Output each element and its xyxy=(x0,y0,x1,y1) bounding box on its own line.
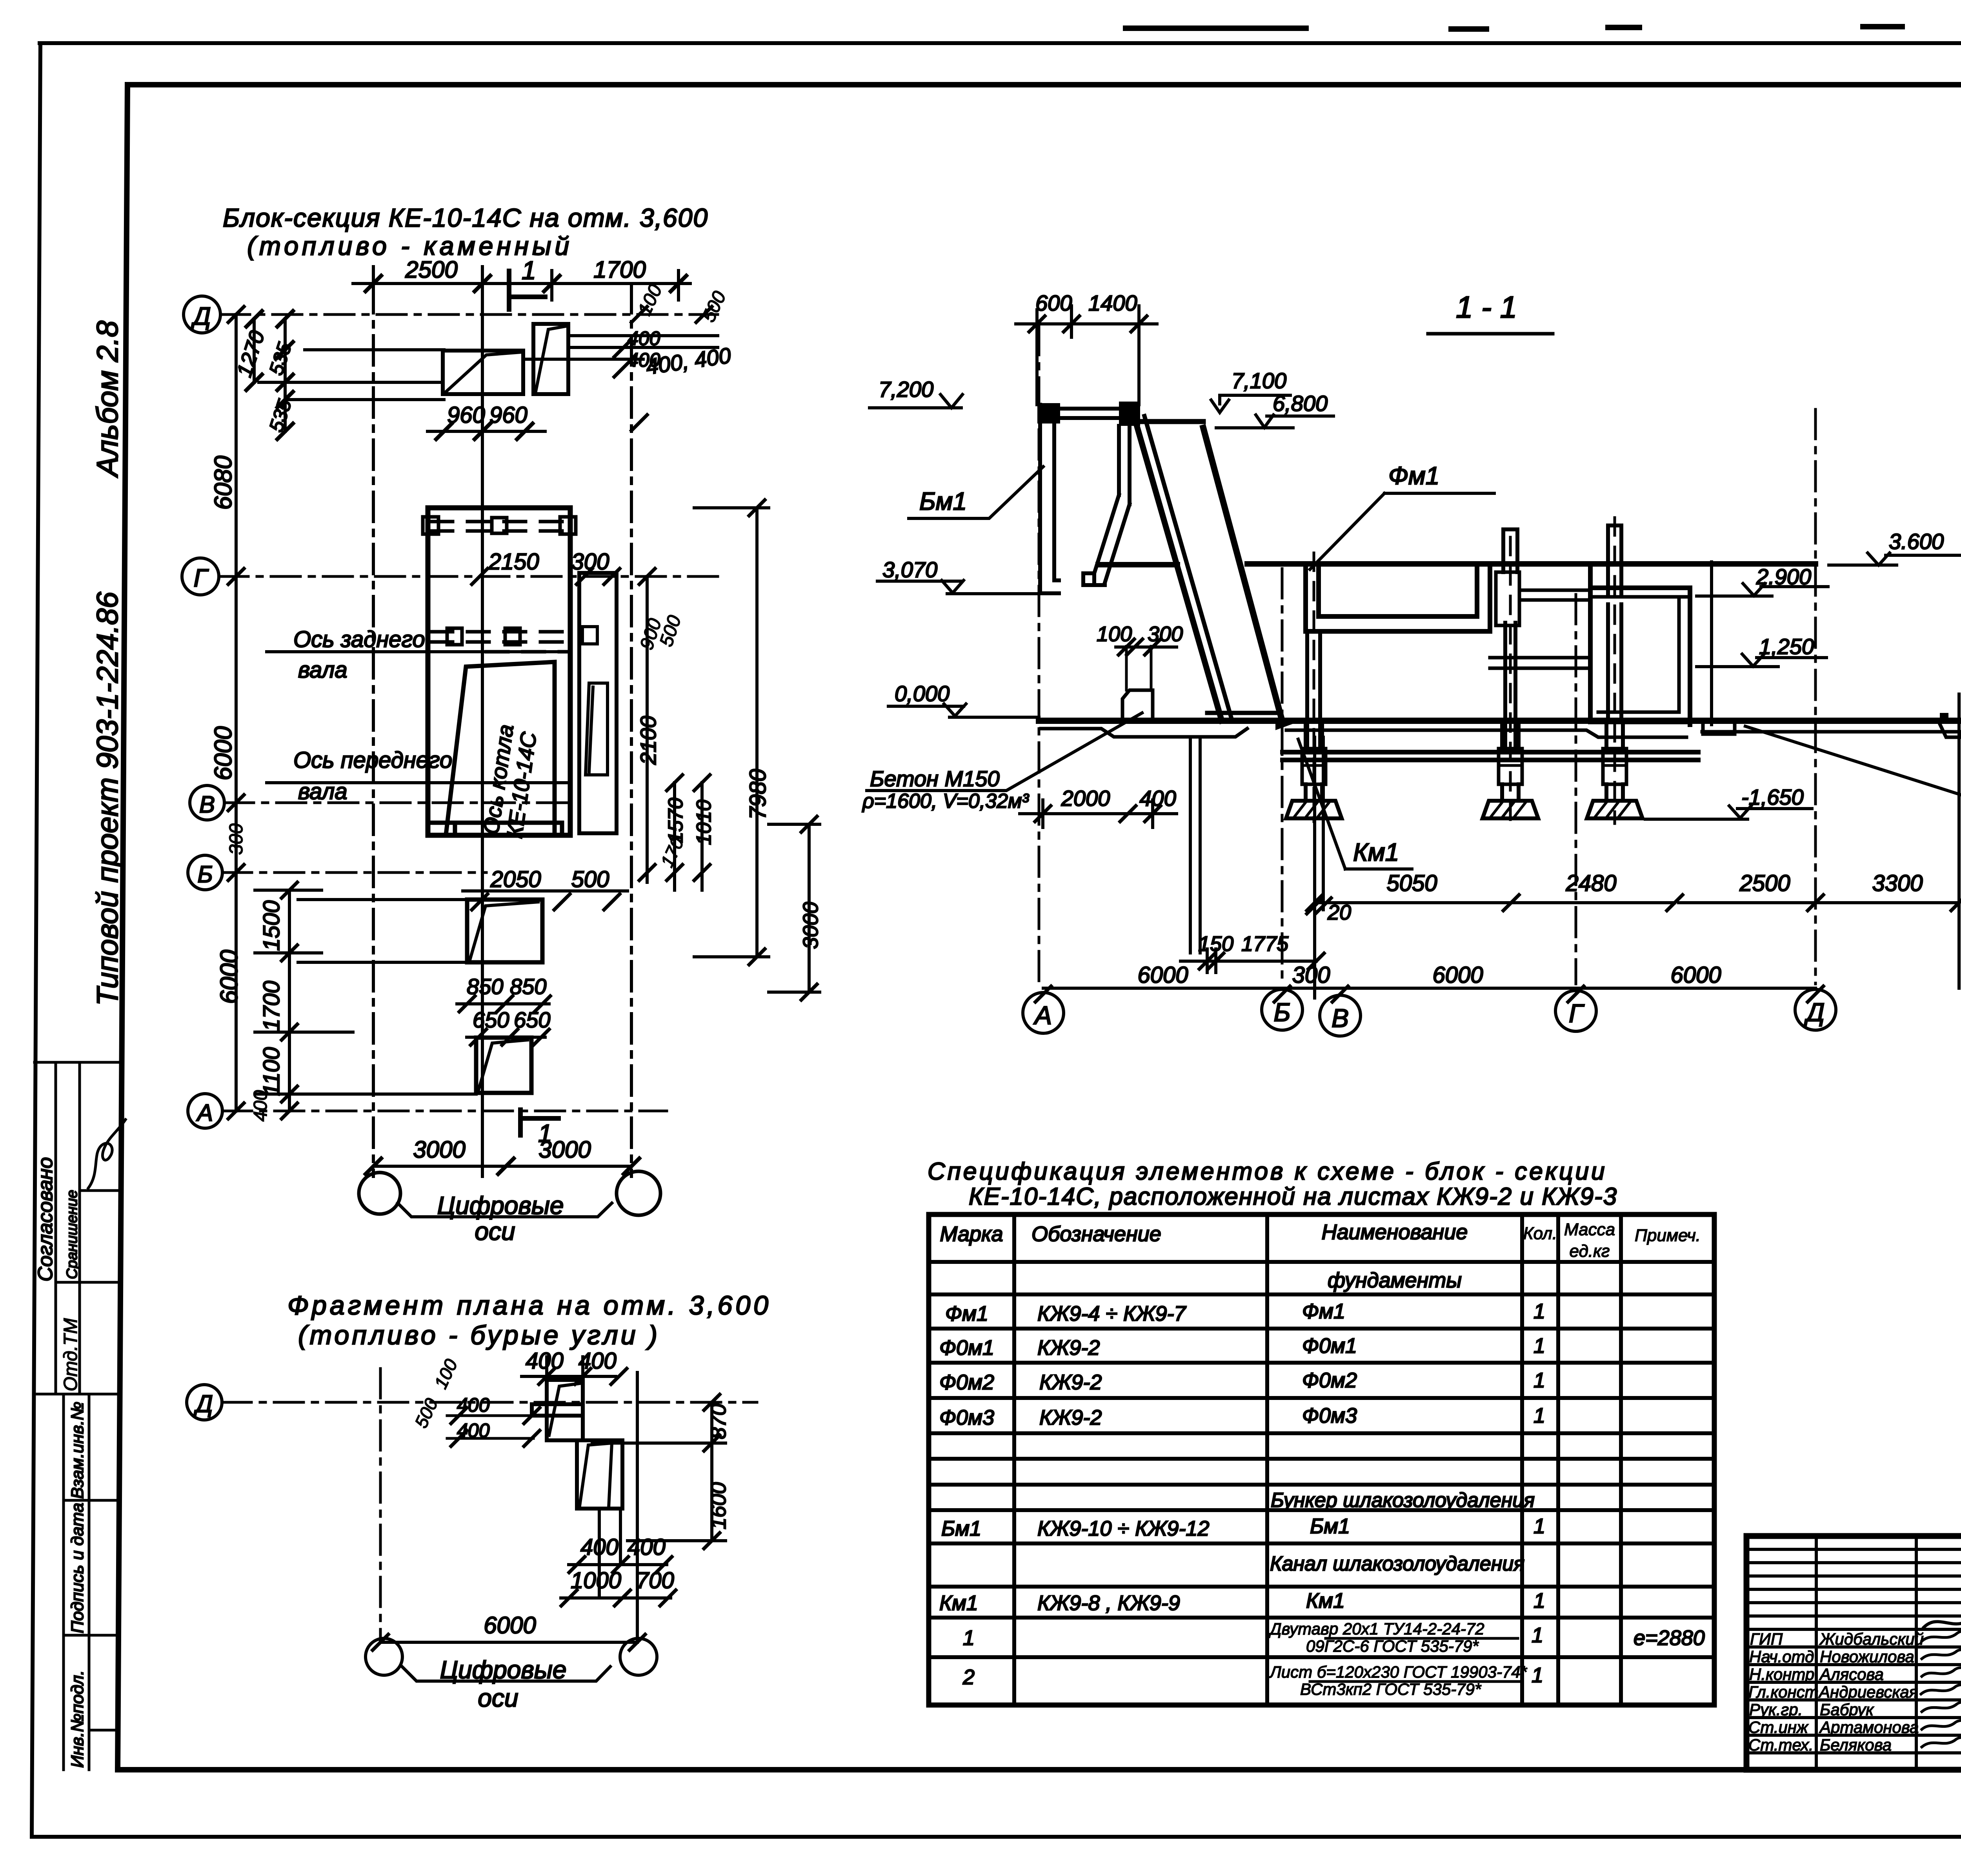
sidebar row line a xyxy=(80,1189,118,1192)
svg-text:3300: 3300 xyxy=(1872,871,1923,896)
svg-text:6,800: 6,800 xyxy=(1273,391,1328,416)
axis line G section vertical xyxy=(1575,594,1577,984)
sidebar lower row line 2 xyxy=(66,1634,118,1637)
signature squiggles xyxy=(1921,1629,1961,1747)
svg-text:Блок-секция КЕ-10-14С на отм: Блок-секция КЕ-10-14С на отм. 3,600 xyxy=(223,203,708,232)
plan grid vertical 2 xyxy=(630,284,633,1176)
column 3 splice xyxy=(1603,749,1626,784)
svg-text:Подпись и дата: Подпись и дата xyxy=(68,1503,87,1633)
svg-text:оси: оси xyxy=(475,1217,515,1245)
fragment foundation upper box xyxy=(547,1380,583,1440)
foundation box 2 plan xyxy=(533,324,568,394)
svg-text:2150: 2150 xyxy=(488,549,539,574)
svg-text:500: 500 xyxy=(656,613,685,649)
sidebar lower row line 1 xyxy=(64,1499,118,1502)
box 3 diagonal xyxy=(470,902,538,960)
dim line 960 xyxy=(427,430,545,433)
svg-text:ρ=1600, V=0,32м³: ρ=1600, V=0,32м³ xyxy=(862,790,1030,813)
svg-text:1: 1 xyxy=(1534,1334,1545,1358)
ticks 400 400 lower xyxy=(569,1557,672,1572)
svg-text:КЖ9-8 , КЖ9-9: КЖ9-8 , КЖ9-9 xyxy=(1037,1591,1180,1615)
right dim chain 2100 xyxy=(646,576,649,882)
svg-text:(топливо - бурые угли ): (топливо - бурые угли ) xyxy=(298,1320,660,1350)
svg-text:2050: 2050 xyxy=(490,867,541,892)
sidebar row line b xyxy=(56,1281,118,1284)
dim line 1000 700 xyxy=(561,1596,671,1600)
right foundation box inner xyxy=(1590,597,1690,712)
svg-text:Б: Б xyxy=(1274,998,1291,1027)
svg-text:Г: Г xyxy=(194,564,209,592)
svg-text:2500: 2500 xyxy=(405,256,457,283)
svg-text:Км1: Км1 xyxy=(1306,1589,1345,1612)
fragment lower box xyxy=(577,1440,622,1509)
svg-text:3.600: 3.600 xyxy=(1889,529,1944,554)
floor underside right xyxy=(1702,725,1961,732)
svg-text:Обозначение: Обозначение xyxy=(1031,1222,1161,1246)
svg-text:Ф0м3: Ф0м3 xyxy=(939,1406,994,1429)
svg-text:1700: 1700 xyxy=(593,256,646,283)
svg-text:1570: 1570 xyxy=(664,798,687,843)
chute right wall xyxy=(1203,428,1282,721)
svg-text:Бабрук: Бабрук xyxy=(1820,1700,1874,1719)
numeric axes bracket xyxy=(398,1203,612,1217)
svg-text:3000: 3000 xyxy=(799,902,822,949)
floor underside mid xyxy=(1286,730,1686,737)
svg-text:300: 300 xyxy=(1148,622,1183,646)
slab 3.600 line xyxy=(1247,561,1815,567)
sidebar vertical divider 1 xyxy=(55,1062,57,1394)
svg-text:400: 400 xyxy=(526,1348,564,1374)
svg-text:Бункер шлакозолоудаления: Бункер шлакозолоудаления xyxy=(1271,1489,1535,1512)
svg-text:Белякова: Белякова xyxy=(1820,1736,1892,1754)
right column inner rect xyxy=(582,627,597,644)
axis circle D section xyxy=(1795,989,1836,1030)
footing 3 hatch xyxy=(1595,802,1630,816)
svg-text:КЕ-10-14С, расположенной на: КЕ-10-14С, расположенной на листах КЖ9-2… xyxy=(969,1183,1617,1210)
axis circle A plan xyxy=(188,1094,222,1128)
section title underline xyxy=(1428,332,1553,336)
ticks 2050 xyxy=(472,894,620,910)
svg-text:Андриевская: Андриевская xyxy=(1818,1683,1918,1701)
pit Fm1 outline xyxy=(1306,564,1490,631)
svg-text:Ось переднего: Ось переднего xyxy=(293,747,452,773)
column above floor mid xyxy=(1503,529,1517,572)
column 1 stub xyxy=(1306,784,1322,801)
plan grid vertical 1 xyxy=(372,284,375,1176)
svg-text:КЖ9-2: КЖ9-2 xyxy=(1037,1336,1100,1360)
bunker room floor segment xyxy=(1098,562,1177,567)
below floor column 2 xyxy=(1502,725,1519,749)
plan top dimension line xyxy=(353,267,690,300)
column 1 splice xyxy=(1302,749,1326,784)
dim 7980 vertical xyxy=(694,508,769,957)
svg-text:6000: 6000 xyxy=(1432,962,1483,988)
axis circle V plan xyxy=(190,785,224,820)
axis circle B section xyxy=(1262,989,1302,1030)
svg-text:Бм1: Бм1 xyxy=(919,487,967,515)
svg-text:400: 400 xyxy=(628,349,660,371)
ticks 1000 700 xyxy=(561,1590,676,1606)
svg-text:Масса: Масса xyxy=(1564,1220,1615,1239)
svg-text:вала: вала xyxy=(298,657,347,683)
svg-text:650: 650 xyxy=(514,1007,550,1032)
column through box xyxy=(1608,604,1621,721)
svg-text:1400: 1400 xyxy=(1088,291,1137,315)
ticks right chain xyxy=(639,569,710,880)
dashed band blocks top xyxy=(423,517,576,534)
numeric axis circle 1 fragment xyxy=(366,1638,402,1675)
svg-text:Сранишение: Сранишение xyxy=(64,1190,80,1279)
sidebar upper box bottom line xyxy=(37,1393,118,1396)
bottom dim ticks plan xyxy=(366,1158,639,1174)
svg-text:6000: 6000 xyxy=(210,726,237,780)
main plan rectangle xyxy=(428,508,570,835)
svg-text:Км1: Км1 xyxy=(1353,838,1399,866)
svg-text:2100: 2100 xyxy=(636,716,660,765)
bunker Bm1 left wall xyxy=(1040,405,1059,593)
boiler inner outline xyxy=(446,662,555,834)
mini chain 535 535 xyxy=(284,319,287,431)
svg-text:Ф0м1: Ф0м1 xyxy=(1302,1334,1357,1358)
column centerline right xyxy=(1614,518,1616,823)
svg-text:300: 300 xyxy=(1292,962,1330,988)
svg-text:Бм1: Бм1 xyxy=(941,1517,981,1540)
column 2 splice xyxy=(1499,749,1522,784)
svg-text:3000: 3000 xyxy=(413,1136,465,1163)
spec table outer frame xyxy=(929,1214,1714,1705)
svg-text:500: 500 xyxy=(411,1395,442,1431)
svg-text:Фм1: Фм1 xyxy=(1388,462,1439,490)
plan left dim chain line xyxy=(235,314,238,1111)
svg-text:1700: 1700 xyxy=(259,981,284,1031)
dim line 6000 fragment xyxy=(380,1641,637,1644)
svg-text:1: 1 xyxy=(1534,1404,1545,1427)
svg-text:535: 535 xyxy=(265,340,296,378)
axis circle B plan xyxy=(188,855,222,890)
vertical guide V axis xyxy=(1315,737,1323,998)
svg-text:Новожилова: Новожилова xyxy=(1820,1647,1914,1666)
svg-text:Типовой проект 903-1-224.86: Типовой проект 903-1-224.86 xyxy=(91,591,124,1006)
fragment axes bracket xyxy=(402,1667,610,1681)
sidebar lower box left edge xyxy=(62,1394,65,1770)
svg-text:100: 100 xyxy=(430,1356,462,1392)
ticks 6000 fragment xyxy=(373,1634,645,1650)
dim line 400 400 top xyxy=(522,1357,616,1384)
dim ticks 960 xyxy=(436,424,533,439)
svg-text:Алясова: Алясова xyxy=(1819,1665,1884,1683)
svg-text:КЖ9-4 ÷ КЖ9-7: КЖ9-4 ÷ КЖ9-7 xyxy=(1037,1302,1186,1325)
svg-text:6000: 6000 xyxy=(216,950,243,1004)
svg-text:3,070: 3,070 xyxy=(882,557,937,582)
svg-text:600: 600 xyxy=(1035,291,1072,315)
chute left wall inner xyxy=(1144,416,1231,717)
plan bottom step xyxy=(428,823,562,835)
svg-text:1: 1 xyxy=(1534,1514,1545,1538)
svg-text:Марка: Марка xyxy=(940,1222,1003,1246)
svg-text:7980: 7980 xyxy=(745,769,771,820)
right dim chain 1570 1010 xyxy=(675,783,702,890)
svg-text:Н.контр: Н.контр xyxy=(1749,1665,1814,1683)
level line 7.100 beam xyxy=(1137,419,1203,424)
svg-text:КЖ9-10 ÷ КЖ9-12: КЖ9-10 ÷ КЖ9-12 xyxy=(1037,1517,1210,1540)
sidebar lower row line 3 xyxy=(89,1729,118,1732)
svg-text:Наименование: Наименование xyxy=(1322,1220,1468,1244)
svg-text:1: 1 xyxy=(1532,1663,1543,1687)
axis line D fragment xyxy=(222,1401,757,1404)
svg-text:Кол.: Кол. xyxy=(1523,1224,1557,1243)
svg-text:Ф0м2: Ф0м2 xyxy=(1302,1369,1357,1392)
svg-text:Гл.конст: Гл.конст xyxy=(1748,1683,1819,1701)
sidebar lower box divider xyxy=(88,1394,91,1770)
svg-text:850: 850 xyxy=(467,974,503,999)
beam to box xyxy=(1519,590,1590,600)
vertical guide B axis dashed xyxy=(1281,569,1284,984)
svg-text:ед.кг: ед.кг xyxy=(1570,1242,1610,1261)
column centerline pit right xyxy=(1509,537,1512,822)
svg-text:КЖ9-2: КЖ9-2 xyxy=(1039,1406,1102,1429)
svg-text:850: 850 xyxy=(510,974,546,999)
svg-text:Фм1: Фм1 xyxy=(1302,1300,1345,1323)
svg-text:Отд.ТМ: Отд.ТМ xyxy=(60,1318,81,1391)
numeric axis circle 2 xyxy=(617,1171,660,1215)
fragment lower box inner xyxy=(580,1443,612,1508)
svg-text:1: 1 xyxy=(1534,1300,1545,1323)
dim 870 vertical xyxy=(592,1402,726,1541)
svg-text:Канал шлакозолоудаления: Канал шлакозолоудаления xyxy=(1270,1552,1524,1575)
svg-text:Ф0м2: Ф0м2 xyxy=(939,1371,994,1394)
svg-text:0,000: 0,000 xyxy=(895,681,950,706)
floor channel dip 2 xyxy=(1938,721,1961,737)
svg-text:Цифровые: Цифровые xyxy=(437,1191,564,1220)
front shaft axis line xyxy=(267,781,569,784)
column above floor right xyxy=(1608,525,1621,594)
svg-text:1500: 1500 xyxy=(259,900,284,951)
svg-text:1: 1 xyxy=(963,1626,975,1650)
svg-text:Спецификация элементов к: Спецификация элементов к схеме - блок - … xyxy=(928,1158,1607,1185)
foundation box 2 diagonal xyxy=(536,326,566,391)
svg-text:1010: 1010 xyxy=(693,800,715,845)
fragment grid vertical 2 xyxy=(636,1372,639,1641)
svg-text:Бм1: Бм1 xyxy=(1310,1514,1350,1538)
mini chain 1270 xyxy=(253,319,256,382)
svg-text:Рук.гр.: Рук.гр. xyxy=(1749,1700,1803,1719)
column 3 stub xyxy=(1606,784,1623,801)
sheet top scan artifact dashes xyxy=(1126,24,1961,29)
concrete pad xyxy=(1122,690,1153,721)
svg-text:700: 700 xyxy=(636,1568,674,1593)
svg-text:500: 500 xyxy=(571,867,609,892)
svg-text:5050: 5050 xyxy=(1386,871,1437,896)
lower foundation box 4 xyxy=(476,1038,531,1093)
svg-text:В: В xyxy=(199,791,215,818)
svg-text:400: 400 xyxy=(250,1090,271,1122)
pit legs xyxy=(1307,623,1515,747)
svg-text:Ст.инж: Ст.инж xyxy=(1748,1718,1809,1736)
svg-text:6000: 6000 xyxy=(484,1612,536,1638)
fragment grid vertical 1 xyxy=(379,1369,382,1641)
svg-text:Двутавр 20х1 ТУ14-2-24-72: Двутавр 20х1 ТУ14-2-24-72 xyxy=(1268,1620,1484,1638)
signature thin rows top xyxy=(1746,1549,1961,1629)
svg-text:А: А xyxy=(1033,1001,1052,1030)
bottom dim line plan xyxy=(373,1165,631,1168)
left cluster dim lines xyxy=(447,1416,533,1438)
svg-text:оси: оси xyxy=(478,1684,518,1712)
svg-text:Жидбальский: Жидбальский xyxy=(1819,1630,1924,1648)
ticks 7980 xyxy=(749,500,765,965)
svg-text:1: 1 xyxy=(1532,1623,1543,1647)
footing 3 xyxy=(1587,801,1643,818)
dashed band mid xyxy=(431,632,569,652)
axis line G plan xyxy=(219,575,718,578)
axis circle G plan xyxy=(182,558,219,595)
chute left wall outer xyxy=(1135,420,1222,721)
svg-text:КЖ9-2: КЖ9-2 xyxy=(1039,1371,1102,1394)
bunker top left block xyxy=(1037,403,1060,424)
footing 1 xyxy=(1286,801,1342,818)
slab 1.250 double line xyxy=(1490,658,1590,668)
column centerline pit left xyxy=(1313,553,1315,822)
plan left dim chain ticks xyxy=(228,307,244,1119)
svg-text:Г: Г xyxy=(1569,999,1584,1028)
svg-text:7,100: 7,100 xyxy=(1232,368,1286,393)
svg-text:Ось заднего: Ось заднего xyxy=(293,627,425,652)
GIP long signature xyxy=(1924,1600,1961,1627)
title block outer xyxy=(1746,1536,1961,1770)
bunker top rail xyxy=(1060,409,1119,418)
svg-text:1,250: 1,250 xyxy=(1759,634,1814,659)
axis circle G section xyxy=(1555,991,1596,1031)
sidebar upper box top line xyxy=(35,1061,118,1064)
svg-text:7,200: 7,200 xyxy=(879,377,933,402)
svg-text:e=2880: e=2880 xyxy=(1634,1626,1705,1650)
svg-text:Д: Д xyxy=(1804,998,1825,1027)
floor underside left xyxy=(1041,729,1247,737)
plan top dim ticks xyxy=(366,276,686,291)
svg-text:1270: 1270 xyxy=(232,328,269,380)
svg-text:400: 400 xyxy=(628,327,660,349)
footing 1 hatch xyxy=(1295,802,1329,816)
bunker front foot xyxy=(1083,573,1105,585)
svg-text:Цифровые: Цифровые xyxy=(440,1656,567,1684)
guide lines box3 xyxy=(298,900,476,1094)
svg-text:300: 300 xyxy=(226,823,247,855)
footing 2 xyxy=(1483,801,1538,818)
vertical solid right xyxy=(1957,694,1961,988)
svg-text:Фм1: Фм1 xyxy=(945,1302,988,1325)
svg-text:6000: 6000 xyxy=(1670,962,1721,988)
svg-text:Д: Д xyxy=(193,1391,213,1418)
axis circle V section xyxy=(1320,995,1361,1036)
axis circle A section xyxy=(1023,993,1064,1033)
below floor column 3 xyxy=(1606,725,1623,749)
signature squiggle upper xyxy=(88,1120,126,1188)
svg-text:6080: 6080 xyxy=(210,456,237,510)
mid column capital xyxy=(1496,572,1519,625)
dim line 850 xyxy=(457,1002,549,1005)
axis circle D fragment xyxy=(187,1385,222,1420)
axis line A plan xyxy=(222,1110,667,1113)
svg-text:3000: 3000 xyxy=(538,1136,591,1163)
svg-text:6000: 6000 xyxy=(1137,962,1188,988)
svg-text:535: 535 xyxy=(265,397,296,435)
axis line V plan xyxy=(224,802,573,804)
numeric axis circle 1 xyxy=(359,1172,400,1214)
svg-text:100: 100 xyxy=(1097,622,1132,646)
dim 3000 vertical right xyxy=(769,824,820,992)
svg-text:Взам.инв.№: Взам.инв.№ xyxy=(68,1402,87,1499)
column 2 stub xyxy=(1502,784,1519,801)
fragment foundation horizontal bar xyxy=(532,1404,583,1416)
svg-text:Б: Б xyxy=(197,861,213,887)
svg-text:2480: 2480 xyxy=(1565,871,1616,896)
plan sub chain line B-A xyxy=(255,890,353,1111)
signature rows xyxy=(1746,1647,1961,1753)
concrete pad guides xyxy=(1126,646,1151,690)
section cut mark 1 top xyxy=(509,271,545,309)
svg-text:ГИП: ГИП xyxy=(1750,1630,1783,1648)
bunker front diagonal legs xyxy=(1094,495,1130,583)
under floor beam xyxy=(1282,752,1698,760)
svg-text:1: 1 xyxy=(522,256,536,285)
svg-text:Примеч.: Примеч. xyxy=(1635,1226,1701,1245)
svg-text:2500: 2500 xyxy=(1739,871,1790,896)
svg-text:650: 650 xyxy=(473,1007,509,1032)
floor channel dip 1 xyxy=(1703,721,1735,734)
signature columns xyxy=(1816,1536,1961,1770)
left cluster ticks xyxy=(451,1408,540,1446)
floor small notches xyxy=(1940,713,1961,720)
main floor line xyxy=(1039,718,1961,724)
axis line A section vertical xyxy=(1038,325,1041,985)
box 4 diagonal xyxy=(478,1040,528,1090)
right column structure xyxy=(579,573,617,833)
svg-text:Альбом 2.8: Альбом 2.8 xyxy=(91,321,124,478)
axis circle D plan xyxy=(184,296,220,333)
svg-text:Фрагмент плана на отм. 3,600: Фрагмент плана на отм. 3,600 xyxy=(287,1291,771,1320)
plan grid vertical mid xyxy=(481,292,484,1176)
sidebar vertical divider 2 xyxy=(78,1062,81,1394)
svg-text:Бетон М150: Бетон М150 xyxy=(870,766,1000,791)
svg-text:2000: 2000 xyxy=(1061,786,1110,811)
vertical line under chute xyxy=(1190,737,1200,953)
right column lower box xyxy=(586,683,608,775)
svg-text:1 - 1: 1 - 1 xyxy=(1456,290,1517,324)
svg-text:2: 2 xyxy=(962,1665,975,1689)
ticks 2150 xyxy=(472,569,620,584)
svg-text:Д: Д xyxy=(191,302,211,330)
svg-text:Ф0м3: Ф0м3 xyxy=(1302,1404,1357,1427)
svg-text:А: А xyxy=(196,1100,213,1126)
dashed band blocks mid xyxy=(447,628,520,645)
svg-text:400: 400 xyxy=(628,1534,666,1560)
dim line 650 xyxy=(467,1036,545,1039)
dim line 400 400 lower xyxy=(569,1510,667,1598)
svg-text:Лист б=120х230 ГОСТ 19903-74*: Лист б=120х230 ГОСТ 19903-74* xyxy=(1269,1663,1528,1681)
spec table row lines xyxy=(929,1262,1714,1657)
fragment upper box diagonal xyxy=(549,1383,580,1435)
lower foundation box 3 xyxy=(467,900,542,962)
dashed band top xyxy=(431,522,569,531)
ticks 3000 right xyxy=(801,816,817,1000)
bunker front hanging wall xyxy=(1119,426,1130,504)
ticks right top xyxy=(614,307,712,431)
ticks 870 1600 xyxy=(704,1394,720,1549)
footing 2 hatch xyxy=(1491,802,1526,816)
numeric axis circle 2 fragment xyxy=(620,1638,657,1675)
chute spout arrow xyxy=(1275,718,1293,730)
ticks 400 400 top xyxy=(539,1369,627,1384)
svg-text:1: 1 xyxy=(1534,1589,1545,1612)
